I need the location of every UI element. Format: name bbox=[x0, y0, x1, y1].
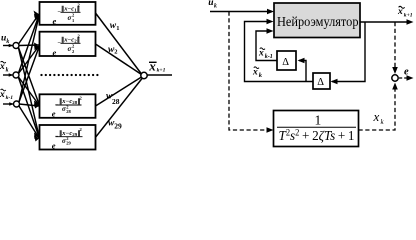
wire box4 to output node bbox=[96, 79, 143, 138]
plant transfer function box bbox=[274, 111, 359, 147]
input node circle 1 bbox=[13, 43, 19, 49]
wires input node 1 to RBF boxes bbox=[19, 14, 40, 136]
solid feedback wire from output down to delta2 bbox=[332, 22, 365, 82]
RBF box 2 bbox=[40, 32, 96, 58]
svg-text:29: 29 bbox=[114, 122, 122, 131]
svg-text:x: x bbox=[148, 58, 156, 73]
input node circle 3 bbox=[14, 101, 20, 107]
svg-text:k: k bbox=[6, 68, 9, 74]
dashed wire from neuroemulator output down into sum bbox=[394, 22, 396, 70]
svg-text:u: u bbox=[208, 0, 213, 8]
node input label u_k bbox=[1, 34, 9, 46]
node input label x~_k bbox=[0, 61, 9, 73]
output wire of neuroemulator bbox=[360, 21, 411, 23]
svg-text:σ: σ bbox=[68, 45, 72, 53]
wire box2 to output node bbox=[96, 44, 142, 75]
svg-text:Нейроэмулятор: Нейроэмулятор bbox=[277, 15, 359, 30]
arrowheads at box2 left edge bbox=[34, 43, 40, 47]
svg-text:29: 29 bbox=[66, 141, 71, 146]
delay block delta2 bbox=[313, 73, 330, 89]
svg-text:1: 1 bbox=[315, 113, 322, 128]
svg-text:Δ: Δ bbox=[282, 57, 289, 68]
sum node circle bbox=[392, 75, 398, 81]
error output dashed arrow bbox=[399, 77, 408, 79]
weight label w1 bbox=[110, 21, 120, 32]
RBF box 3 bbox=[40, 94, 96, 118]
svg-text:x: x bbox=[252, 68, 258, 78]
weight label w28 bbox=[106, 92, 120, 106]
svg-text:x: x bbox=[258, 49, 264, 59]
svg-text:1: 1 bbox=[116, 25, 119, 32]
svg-text:2: 2 bbox=[114, 49, 117, 56]
svg-text:e: e bbox=[404, 67, 409, 78]
label u_k bbox=[208, 0, 217, 9]
dotted separator row bbox=[40, 74, 98, 76]
svg-text:k-1: k-1 bbox=[6, 95, 14, 101]
neuroemulator box bbox=[274, 3, 360, 38]
wires input node 3 to RBF boxes bbox=[19, 16, 39, 138]
svg-text:Δ: Δ bbox=[317, 77, 324, 88]
dashed wire plant output to sum bbox=[359, 87, 396, 131]
svg-text:k+1: k+1 bbox=[404, 13, 413, 19]
wire box3 to output node bbox=[96, 77, 142, 106]
wire u_k into neuroemulator bbox=[210, 11, 272, 13]
svg-text:28: 28 bbox=[112, 97, 120, 106]
label x~_k bbox=[252, 67, 263, 79]
wire delta1 output to riser and into neuroemulator input 3 bbox=[256, 31, 277, 61]
weight label w29 bbox=[108, 119, 122, 131]
svg-text:e: e bbox=[52, 109, 56, 119]
output label x_bar_k+1 bbox=[148, 58, 165, 73]
svg-text:k: k bbox=[214, 3, 217, 9]
wires input node 2 to RBF boxes bbox=[19, 15, 40, 137]
delay block delta1 bbox=[277, 51, 296, 70]
weight label w2 bbox=[108, 45, 118, 56]
arrowheads at box4 left edge bbox=[34, 133, 40, 137]
dashed wire from u_k line down to plant box bbox=[229, 12, 270, 131]
RBF box 1 bbox=[40, 2, 96, 26]
wire delta2 output to vertical riser and into neuroemulator input 2 bbox=[245, 22, 314, 82]
input node circle 2 bbox=[13, 72, 19, 78]
junction and riser to delta1 input bbox=[299, 61, 306, 82]
arrowheads at box1 left edge bbox=[34, 11, 40, 16]
svg-text:k+1: k+1 bbox=[157, 68, 166, 74]
svg-text:e: e bbox=[53, 16, 57, 26]
svg-text:28: 28 bbox=[66, 109, 71, 114]
svg-text:e: e bbox=[53, 47, 57, 57]
label x~_k+1 bbox=[397, 6, 413, 18]
wire u_k to input node bbox=[3, 45, 13, 47]
node input label x~_k-1 bbox=[0, 89, 13, 101]
svg-text:e: e bbox=[52, 140, 56, 150]
wire x~_k-1 to input node bbox=[3, 103, 13, 105]
svg-text:x: x bbox=[373, 109, 380, 124]
wire box1 to output node bbox=[96, 13, 142, 74]
wire x~_k to input node bbox=[3, 74, 13, 76]
output wire bbox=[147, 74, 172, 76]
svg-text:T2s2 + 2ζTs + 1: T2s2 + 2ζTs + 1 bbox=[279, 128, 355, 145]
RBF box 4 bbox=[40, 125, 96, 150]
output node circle bbox=[141, 72, 147, 78]
arrowheads at box3 left edge bbox=[34, 101, 40, 105]
svg-text:σ: σ bbox=[68, 14, 72, 22]
label x_k bbox=[373, 109, 385, 126]
svg-text:k-1: k-1 bbox=[265, 54, 273, 60]
label x~_k-1 bbox=[258, 48, 273, 60]
